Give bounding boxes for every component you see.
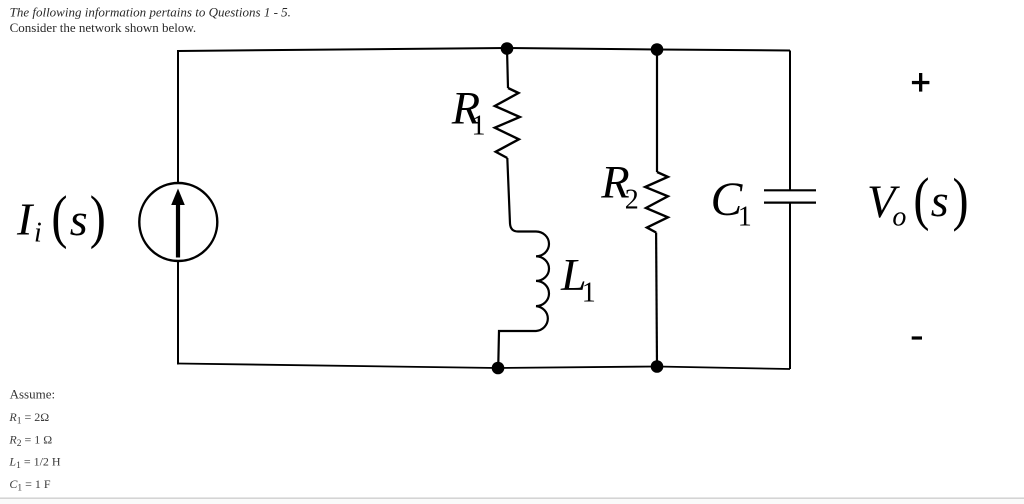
- node dot top R2: [651, 43, 664, 56]
- node dot bottom R2: [651, 360, 664, 373]
- svg-text:i: i: [34, 218, 42, 249]
- svg-text:Consider the network shown bel: Consider the network shown below.: [10, 20, 197, 35]
- capacitor C1 top lead: [789, 51, 791, 191]
- resistor R1 top lead: [507, 49, 508, 89]
- bottom divider line: [0, 498, 1024, 499]
- resistor R2 bottom lead: [655, 233, 658, 367]
- resistor R2 zigzag: [645, 172, 668, 233]
- current source I circle: [139, 183, 217, 261]
- label R2: [600, 158, 638, 216]
- wire bottom-middle segment: [498, 367, 657, 369]
- svg-text:1: 1: [582, 277, 596, 308]
- svg-text:1: 1: [738, 202, 752, 233]
- svg-text:Assume:: Assume:: [10, 387, 56, 402]
- wire top-middle segment: [507, 48, 657, 50]
- wire R1 to L1: [507, 158, 536, 232]
- svg-text:): ): [953, 166, 969, 232]
- svg-text:o: o: [892, 201, 906, 232]
- node dot top R1: [501, 42, 514, 55]
- label I_i(s): [16, 184, 106, 250]
- capacitor C1 bottom lead: [789, 203, 791, 369]
- svg-text:C1 = 1 F: C1 = 1 F: [9, 477, 51, 494]
- wire left vertical: [177, 50, 179, 365]
- svg-text:s: s: [931, 175, 949, 226]
- wire top-right segment: [657, 50, 790, 51]
- svg-text:2: 2: [625, 184, 639, 215]
- svg-text:1: 1: [472, 111, 486, 142]
- current source arrow: [171, 189, 185, 258]
- wire top-left segment: [178, 48, 507, 51]
- svg-text:I: I: [16, 194, 35, 245]
- label V_o(s): [867, 166, 969, 233]
- label C1: [711, 174, 752, 233]
- node dot bottom L1: [492, 362, 505, 375]
- capacitor C1 plates: [764, 190, 816, 202]
- svg-text:(: (: [51, 184, 67, 250]
- wire bottom-left segment: [178, 364, 498, 369]
- wire bottom-right segment: [657, 367, 790, 370]
- plus sign output polarity: [912, 73, 930, 92]
- minus sign output polarity: [912, 336, 922, 339]
- svg-text:R2 = 1 Ω: R2 = 1 Ω: [8, 432, 52, 449]
- resistor R2 top lead: [656, 50, 658, 173]
- inductor L1 coil: [498, 232, 549, 365]
- label R1: [451, 83, 486, 141]
- svg-text:R1 = 2Ω: R1 = 2Ω: [8, 410, 49, 427]
- svg-text:The following information pert: The following information pertains to Qu…: [10, 5, 291, 20]
- svg-text:s: s: [70, 194, 88, 245]
- svg-text:(: (: [913, 166, 929, 232]
- label L1: [560, 249, 596, 309]
- svg-text:L1 = 1/2 H: L1 = 1/2 H: [8, 455, 61, 472]
- resistor R1 zigzag: [495, 88, 520, 158]
- svg-text:): ): [90, 184, 106, 250]
